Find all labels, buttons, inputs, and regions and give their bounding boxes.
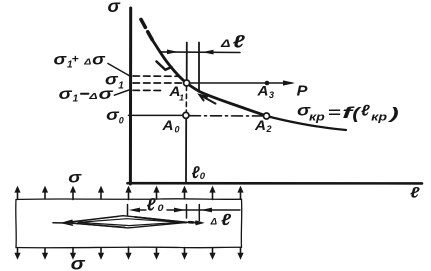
label l0 under graph [192, 163, 206, 182]
label sigma1+dsigma [54, 52, 107, 71]
svg-text:A: A [256, 84, 268, 99]
svg-text:1: 1 [118, 80, 124, 91]
curve dashed upper part [141, 20, 153, 42]
svg-text:1: 1 [73, 94, 79, 105]
leader line upper [108, 64, 130, 76]
point A3 (filled dot) [265, 81, 270, 86]
svg-text:0: 0 [158, 203, 165, 214]
sigma axis (vertical) [129, 8, 132, 184]
svg-text:σ: σ [54, 52, 68, 69]
dim arrowhead pointing left [202, 50, 214, 55]
label l0 bottom dim [147, 195, 165, 215]
V1 solid below A0 to axis [185, 118, 187, 183]
top tension arrows (pointing up) [18, 190, 241, 200]
svg-text:=: = [328, 104, 341, 120]
svg-text:σ: σ [68, 169, 82, 186]
plate rectangle: top edge [16, 198, 242, 201]
svg-text:A: A [161, 118, 173, 133]
vertical line V1 at l0: solid above A1 [186, 43, 188, 83]
minus sign [81, 93, 88, 95]
vertical line V2 at l0+dl [198, 43, 200, 92]
curve sigma_kr solid part [153, 41, 267, 116]
crack right growth arrow [189, 221, 199, 224]
svg-text:Δ: Δ [220, 38, 231, 50]
dashed level sigma1+dsigma [133, 75, 178, 77]
label sigma1-dsigma [59, 86, 115, 105]
point A1 (open circle) [184, 80, 190, 86]
crack lens inner outline [78, 219, 180, 226]
svg-text:0: 0 [119, 116, 124, 126]
svg-text:σ: σ [92, 52, 106, 69]
solid level sigma0 to A0 [129, 114, 183, 116]
top dimension line delta-l [161, 51, 241, 54]
svg-text:ℓ: ℓ [192, 163, 200, 182]
label sigma1 [105, 72, 124, 92]
tick 3 [198, 205, 200, 221]
svg-text:Δ: Δ [83, 58, 91, 67]
tick 2 [186, 205, 188, 219]
label sigma0 [106, 107, 124, 126]
P arrowhead [283, 80, 295, 85]
plate left edge [15, 200, 17, 248]
svg-text:A: A [254, 118, 266, 133]
label sigma_kr = f(l_kr) [297, 102, 399, 123]
curve tail after A2 [267, 116, 347, 130]
point A0 (open circle) [183, 112, 189, 118]
svg-text:+: + [72, 54, 80, 66]
svg-text:3: 3 [269, 90, 274, 100]
crack left arrow [53, 222, 66, 224]
svg-text:ℓ: ℓ [410, 185, 420, 202]
label A0 [161, 118, 179, 134]
label A2 [254, 118, 272, 134]
crack sketch stroke lower left [70, 223, 125, 227]
crack lens outer outline (elongated diamond) [66, 216, 188, 228]
svg-text:0: 0 [200, 171, 205, 181]
svg-text:Δ: Δ [210, 217, 218, 227]
svg-text:кр: кр [371, 112, 387, 124]
svg-text:кр: кр [309, 112, 325, 124]
svg-text:ℓ: ℓ [147, 195, 157, 215]
label A1 [168, 84, 184, 103]
svg-text:σ: σ [108, 0, 121, 16]
curve arrow lower (half arrow below A1) [200, 95, 216, 104]
dashed level sigma1 [133, 82, 184, 84]
dash-dot from A0 to A2 [190, 115, 264, 117]
label A3 [256, 84, 274, 100]
svg-text:σ: σ [71, 254, 86, 271]
point A2 (open circle) [264, 113, 270, 119]
curve arrow upper (chevron near A1) [157, 62, 172, 70]
svg-text:ℓ: ℓ [233, 31, 246, 51]
arrowhead pointing right at tick2 [174, 208, 185, 213]
crack sketch stroke upper right [135, 217, 186, 223]
bottom dimension line l0 + dl [138, 209, 146, 211]
arrowhead pointing left at tick1 [129, 208, 140, 213]
plate bottom edge [16, 246, 242, 249]
svg-text:1: 1 [179, 93, 184, 103]
svg-text:σ: σ [59, 86, 74, 103]
dashed level sigma1-dsigma [133, 89, 164, 91]
svg-text:P: P [297, 83, 309, 100]
ell axis (horizontal) [128, 182, 423, 185]
V1 dashed between A1 and A0 [185, 86, 187, 113]
label delta-l bottom [210, 212, 232, 229]
svg-text:2: 2 [266, 124, 272, 134]
svg-text:0: 0 [175, 125, 180, 135]
arrowhead pointing left at tick3 [201, 208, 212, 213]
svg-text:ℓ: ℓ [361, 102, 371, 119]
svg-text:ℓ: ℓ [221, 212, 232, 229]
leader line lower [114, 90, 129, 95]
svg-text:σ: σ [99, 86, 115, 103]
crack sketch stroke upper left [70, 217, 118, 222]
bottom tension arrows (pointing down) [18, 247, 241, 254]
tick 1 [127, 205, 129, 216]
plate right edge [240, 199, 242, 247]
dim arrowhead pointing right [167, 50, 178, 55]
solid line through A1 to P arrow [190, 82, 293, 84]
